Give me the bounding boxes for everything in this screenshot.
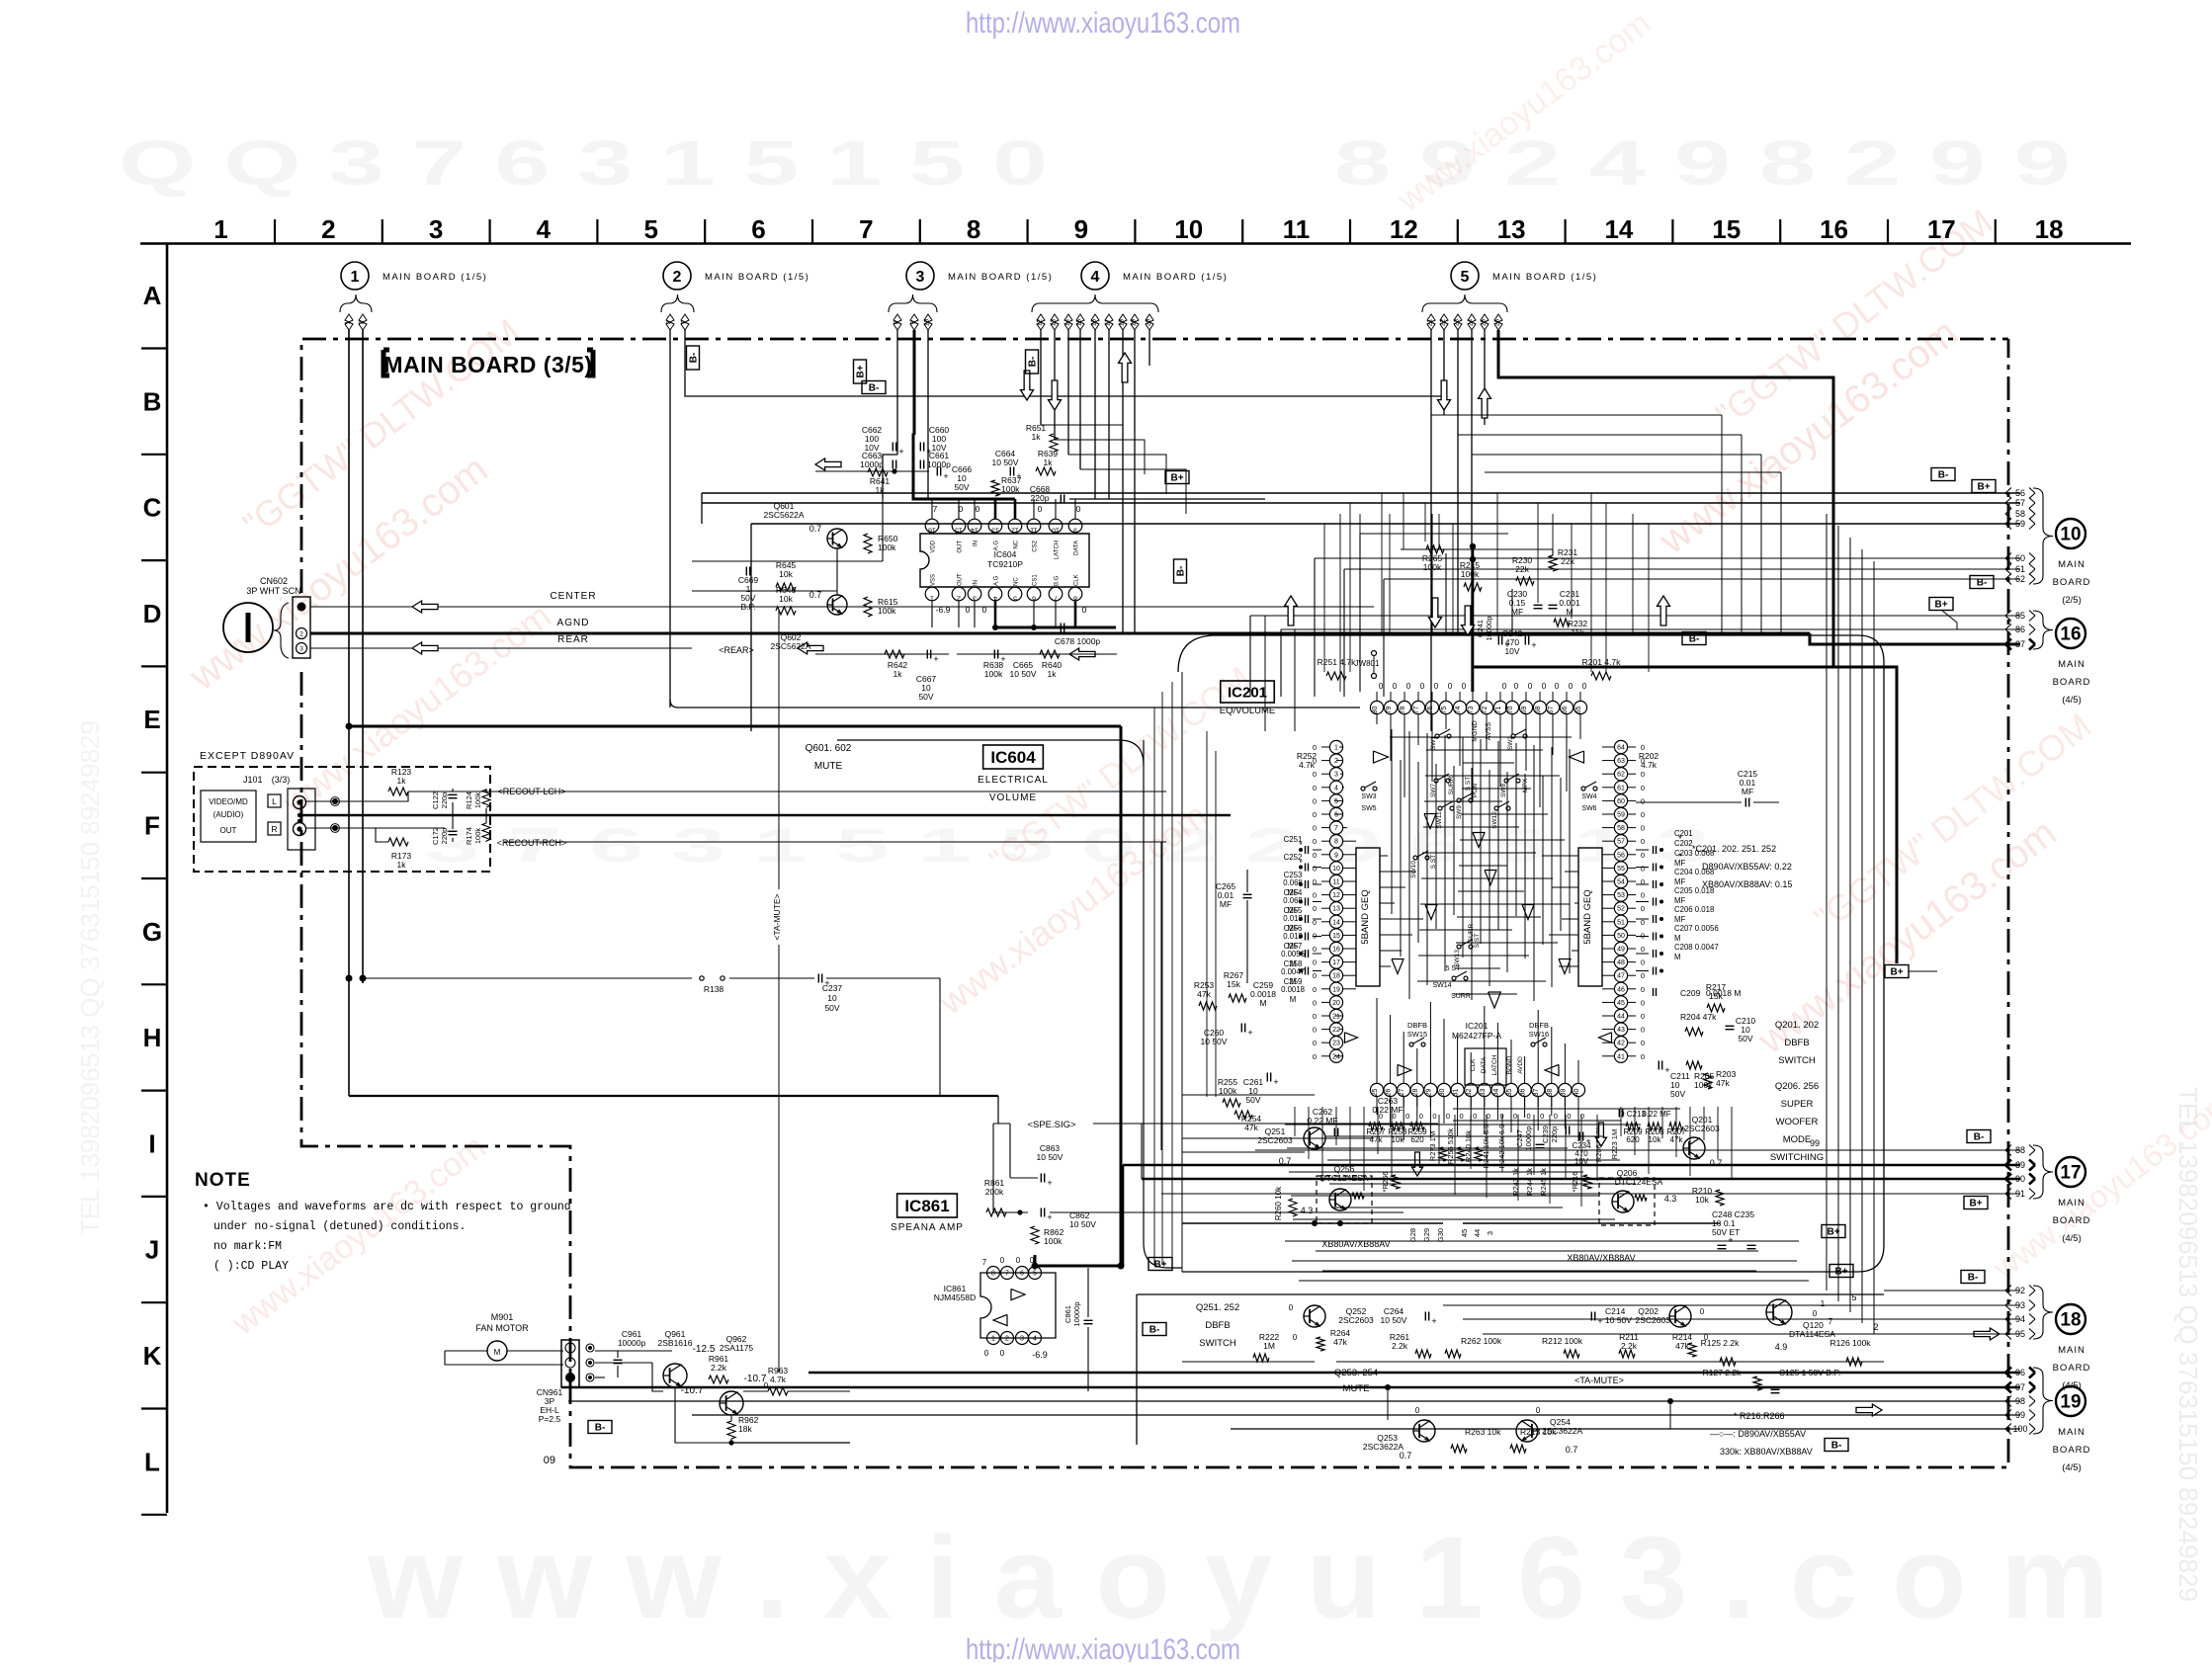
svg-text:B-: B- bbox=[1831, 1441, 1842, 1452]
arrow up right of IC201 bbox=[1658, 596, 1670, 625]
svg-text:16: 16 bbox=[1091, 319, 1098, 327]
capacitor C678 1000p bbox=[1060, 624, 1062, 632]
svg-text:1k: 1k bbox=[1048, 669, 1058, 679]
svg-text:7: 7 bbox=[933, 504, 938, 514]
svg-text:C201: C201 bbox=[1674, 829, 1693, 838]
staircase wires conn5 to right bus bbox=[1431, 414, 1722, 416]
svg-text:220p: 220p bbox=[1550, 1126, 1559, 1143]
svg-text:JW801: JW801 bbox=[1355, 659, 1380, 668]
svg-text:85: 85 bbox=[2015, 611, 2025, 621]
svg-text:0: 0 bbox=[1641, 891, 1645, 900]
svg-text:B+: B+ bbox=[1834, 1267, 1847, 1278]
svg-text:B-: B- bbox=[689, 353, 700, 364]
power label B+ IC861 bbox=[1149, 1258, 1172, 1271]
svg-text:13: 13 bbox=[991, 527, 999, 534]
svg-text:2.2k: 2.2k bbox=[1621, 1341, 1638, 1351]
svg-text:1k: 1k bbox=[397, 860, 407, 870]
power label B- conn17 top bbox=[1967, 1130, 1991, 1143]
svg-text:0: 0 bbox=[1313, 877, 1317, 886]
svg-text:4.7k: 4.7k bbox=[770, 1375, 787, 1384]
svg-text:2: 2 bbox=[299, 630, 303, 637]
wire row H thick to SPE.SIG bbox=[349, 1095, 998, 1097]
svg-text:10: 10 bbox=[1052, 527, 1060, 534]
svg-text:20: 20 bbox=[1332, 1000, 1340, 1007]
svg-text:EQ/VOLUME: EQ/VOLUME bbox=[1220, 706, 1276, 716]
svg-text:0: 0 bbox=[1313, 931, 1317, 940]
svg-text:CENTER: CENTER bbox=[550, 591, 596, 602]
svg-text:2SC3622A: 2SC3622A bbox=[1363, 1442, 1404, 1452]
bus wires rows C to connector 10 bbox=[702, 492, 2020, 494]
NOTE text block bbox=[195, 1170, 571, 1273]
svg-text:+: + bbox=[1728, 1235, 1733, 1245]
svg-text:DBFB: DBFB bbox=[1529, 1021, 1549, 1030]
svg-text:SW1: SW1 bbox=[1430, 736, 1437, 750]
svg-text:0: 0 bbox=[1313, 810, 1317, 819]
svg-text:CS2: CS2 bbox=[1033, 540, 1039, 551]
arrow CENTER bbox=[412, 601, 438, 613]
svg-text:97: 97 bbox=[2015, 1382, 2025, 1392]
svg-text:10: 10 bbox=[827, 993, 837, 1003]
svg-text:6: 6 bbox=[1020, 1271, 1024, 1278]
svg-text:2: 2 bbox=[321, 214, 335, 244]
svg-text:B-: B- bbox=[595, 1423, 606, 1434]
svg-text:+: + bbox=[1047, 1178, 1052, 1188]
svg-text:C122: C122 bbox=[431, 792, 440, 809]
wire row E thick bus bbox=[346, 723, 353, 730]
svg-text:59: 59 bbox=[2015, 519, 2025, 529]
svg-text:47: 47 bbox=[1617, 973, 1625, 980]
opamp triangles row3 bbox=[1392, 959, 1404, 974]
svg-text:IC861: IC861 bbox=[904, 1197, 949, 1215]
svg-text:4: 4 bbox=[537, 214, 552, 244]
svg-text:19: 19 bbox=[1131, 319, 1138, 327]
svg-text:*R266: *R266 bbox=[1381, 1172, 1390, 1193]
svg-text:0: 0 bbox=[1420, 682, 1425, 691]
svg-text:R125 2.2k: R125 2.2k bbox=[1701, 1338, 1740, 1348]
svg-text:0.22 MF: 0.22 MF bbox=[1642, 1110, 1670, 1119]
svg-text:BOARD: BOARD bbox=[2053, 1363, 2091, 1374]
svg-text:TC9210P: TC9210P bbox=[987, 559, 1023, 569]
svg-text:SW9: SW9 bbox=[1456, 805, 1463, 819]
svg-text:0: 0 bbox=[1313, 851, 1317, 860]
svg-text:76: 76 bbox=[1427, 707, 1434, 714]
J101 connector body bbox=[288, 789, 315, 850]
svg-text:B+: B+ bbox=[1977, 482, 1990, 493]
svg-text:16: 16 bbox=[1820, 214, 1848, 244]
svg-text:IN: IN bbox=[974, 580, 979, 586]
svg-text:64: 64 bbox=[1617, 745, 1625, 752]
svg-text:G29: G29 bbox=[1422, 1228, 1431, 1242]
svg-text:C208 0.0047: C208 0.0047 bbox=[1674, 943, 1719, 952]
svg-text:+: + bbox=[1531, 640, 1536, 650]
svg-text:2SC5622A: 2SC5622A bbox=[770, 641, 810, 651]
svg-text:68: 68 bbox=[1535, 707, 1542, 714]
svg-text:IC604: IC604 bbox=[990, 748, 1036, 767]
svg-text:0: 0 bbox=[1076, 504, 1081, 514]
svg-text:10: 10 bbox=[1174, 214, 1203, 244]
wire AGND thick bbox=[310, 632, 1810, 635]
svg-text:R256 510k: R256 510k bbox=[1446, 1128, 1455, 1165]
svg-text:+: + bbox=[1431, 1316, 1436, 1326]
svg-text:22: 22 bbox=[1440, 319, 1447, 327]
thick AGND wire to pin 87 bbox=[1810, 633, 2020, 644]
svg-text:B.P.: B.P. bbox=[741, 602, 756, 612]
svg-text:47k: 47k bbox=[1197, 989, 1211, 999]
svg-text:5: 5 bbox=[1033, 1271, 1037, 1278]
svg-text:56: 56 bbox=[1617, 852, 1625, 859]
svg-text:4.3: 4.3 bbox=[1664, 1194, 1677, 1204]
svg-text:96: 96 bbox=[2015, 1368, 2025, 1377]
svg-text:0: 0 bbox=[1514, 682, 1519, 691]
node I source symbol bbox=[223, 603, 273, 652]
svg-text:46: 46 bbox=[1617, 986, 1625, 993]
svg-text:0: 0 bbox=[1536, 1406, 1541, 1415]
svg-text:0: 0 bbox=[1038, 504, 1043, 514]
wire J101 L out bbox=[306, 800, 395, 802]
svg-text:59: 59 bbox=[1617, 812, 1625, 819]
connector ref 18 to MAIN BOARD 4/5 bbox=[2005, 1286, 2090, 1392]
right caps C201-C209 bbox=[1636, 829, 1719, 975]
svg-text:29: 29 bbox=[1425, 1089, 1432, 1097]
svg-text:12: 12 bbox=[1037, 319, 1044, 327]
svg-text:13: 13 bbox=[1051, 319, 1058, 327]
staircase wires conn4 to IC604 big rect bbox=[1041, 425, 1123, 464]
svg-text:2SC5622A: 2SC5622A bbox=[763, 510, 804, 520]
svg-text:10000p: 10000p bbox=[618, 1338, 646, 1348]
transistor Q120 DTA114ESA bbox=[1766, 1299, 1792, 1325]
wire conn3 pin8 down bbox=[896, 330, 898, 455]
svg-text:0: 0 bbox=[1313, 1052, 1317, 1061]
pin R box bbox=[268, 822, 281, 835]
arrow down conn4-a bbox=[1021, 371, 1034, 400]
capacitor C237 10 50V bbox=[817, 974, 819, 983]
svg-text:49: 49 bbox=[1617, 947, 1625, 954]
svg-text:7: 7 bbox=[1334, 825, 1338, 832]
svg-text:0: 0 bbox=[1567, 1112, 1571, 1121]
svg-text:23: 23 bbox=[1454, 319, 1461, 327]
svg-text:2.2k: 2.2k bbox=[1392, 1341, 1408, 1351]
svg-text:100k: 100k bbox=[473, 828, 482, 845]
svg-text:R262 100k: R262 100k bbox=[1461, 1336, 1502, 1346]
svg-text:1k: 1k bbox=[397, 776, 407, 786]
svg-text:1k: 1k bbox=[1044, 458, 1054, 467]
svg-text:19: 19 bbox=[1332, 986, 1340, 993]
svg-text:AGND: AGND bbox=[557, 618, 590, 628]
svg-text:R240 10k: R240 10k bbox=[1464, 1130, 1473, 1162]
svg-text:14: 14 bbox=[1064, 319, 1071, 327]
svg-text:61: 61 bbox=[2015, 564, 2025, 574]
svg-text:99: 99 bbox=[2015, 1410, 2025, 1420]
svg-text:60: 60 bbox=[1617, 798, 1625, 805]
svg-text:67: 67 bbox=[1548, 707, 1555, 714]
svg-text:w w w . x i a o y u 1 6 3 . c: w w w . x i a o y u 1 6 3 . c o m bbox=[367, 1513, 2109, 1643]
svg-text:R124: R124 bbox=[465, 792, 473, 809]
svg-text:40: 40 bbox=[1574, 1089, 1580, 1097]
svg-text:8: 8 bbox=[1073, 595, 1077, 602]
svg-text:M: M bbox=[1674, 934, 1681, 943]
pin L box bbox=[268, 794, 281, 807]
connector ref 2 to MAIN BOARD (1/5) bbox=[661, 262, 809, 330]
power label B+ right mid bbox=[1885, 965, 1909, 978]
svg-text:D: D bbox=[143, 599, 162, 628]
svg-text:R201 4.7k: R201 4.7k bbox=[1582, 657, 1621, 667]
svg-text:*: * bbox=[1678, 852, 1682, 863]
svg-text:B+: B+ bbox=[1153, 1260, 1166, 1271]
svg-text:MAIN: MAIN bbox=[2058, 1345, 2085, 1356]
connector ref 5 to MAIN BOARD (1/5) bbox=[1422, 262, 1597, 330]
svg-text:*R216: *R216 bbox=[1571, 1172, 1579, 1193]
svg-text:0.7: 0.7 bbox=[1400, 1451, 1412, 1460]
svg-text:SW16: SW16 bbox=[1529, 1030, 1549, 1039]
svg-text:no mark:FM: no mark:FM bbox=[213, 1240, 282, 1253]
opamp triangles row1 bbox=[1374, 751, 1389, 763]
power label B+ c248 bbox=[1822, 1225, 1845, 1238]
svg-text:0: 0 bbox=[1448, 682, 1453, 691]
IC604 bottom thick bus bbox=[993, 626, 1116, 629]
svg-text:R223 1M: R223 1M bbox=[1610, 1129, 1619, 1159]
svg-text:10 50V: 10 50V bbox=[1037, 1152, 1063, 1162]
svg-text:3: 3 bbox=[429, 214, 443, 244]
svg-text:IN: IN bbox=[974, 541, 979, 546]
svg-text:0: 0 bbox=[1513, 1112, 1517, 1121]
svg-text:MAIN: MAIN bbox=[2058, 659, 2085, 670]
arrow up left of IC201 bbox=[1285, 596, 1298, 625]
left edge feeder wires ic201 bbox=[1153, 708, 1155, 1265]
svg-text:0: 0 bbox=[1405, 1112, 1409, 1121]
svg-text:<TA-MUTE>: <TA-MUTE> bbox=[772, 893, 782, 940]
svg-text:100k: 100k bbox=[878, 606, 896, 616]
svg-text:BGND: BGND bbox=[1506, 1055, 1513, 1074]
border frame ruler bbox=[140, 214, 2131, 1515]
svg-text:22k: 22k bbox=[1515, 564, 1529, 574]
svg-text:0: 0 bbox=[1313, 784, 1317, 792]
svg-text:10k: 10k bbox=[1649, 1135, 1662, 1144]
5BAND GEQ block left bbox=[1356, 848, 1380, 986]
power label B- bottom right bbox=[1825, 1439, 1848, 1452]
svg-text:MF: MF bbox=[1220, 899, 1232, 909]
block Q251 252 DBFB SWITCH box bbox=[1137, 1293, 1884, 1295]
power label B+ conn17 bottom bbox=[1964, 1197, 1988, 1209]
svg-text:0.7: 0.7 bbox=[1710, 1158, 1723, 1168]
svg-text:0: 0 bbox=[1813, 1309, 1818, 1318]
svg-text:1: 1 bbox=[213, 214, 227, 244]
svg-text:37: 37 bbox=[1533, 1089, 1540, 1097]
IC201 left pin col 1..24 bbox=[1321, 740, 1343, 1062]
wire AGND J101 thick bbox=[302, 814, 1231, 817]
wires dbfb box bbox=[1182, 1361, 1315, 1363]
svg-text:(4/5): (4/5) bbox=[2062, 695, 2082, 706]
svg-text:EXCEPT D890AV: EXCEPT D890AV bbox=[200, 750, 295, 762]
svg-text:100k: 100k bbox=[473, 792, 482, 809]
arrow up conn4 bbox=[1119, 353, 1132, 382]
svg-text:R212 100k: R212 100k bbox=[1542, 1336, 1583, 1346]
svg-text:3: 3 bbox=[1486, 1231, 1494, 1235]
svg-text:0: 0 bbox=[1641, 877, 1645, 886]
svg-text:VIDEO/MD: VIDEO/MD bbox=[209, 797, 248, 806]
svg-text:OUT: OUT bbox=[220, 826, 237, 835]
svg-text:LATCH: LATCH bbox=[1055, 541, 1061, 559]
svg-text:VDD: VDD bbox=[931, 540, 937, 552]
svg-text:SW11: SW11 bbox=[1436, 811, 1443, 829]
wires bottom mid cluster bbox=[1182, 1222, 1443, 1224]
svg-text:B-: B- bbox=[869, 383, 880, 394]
svg-text:5BAND GEQ: 5BAND GEQ bbox=[1582, 889, 1593, 944]
wires group 18 left bbox=[1884, 1290, 2020, 1292]
wire conn1 pin2 down bbox=[362, 330, 364, 983]
power label B- fan bbox=[588, 1421, 612, 1434]
svg-text:0.22 MF: 0.22 MF bbox=[1372, 1105, 1403, 1115]
svg-text:0: 0 bbox=[1641, 851, 1645, 860]
svg-text:0: 0 bbox=[1313, 864, 1317, 873]
vertical feeders 17/18 bbox=[1122, 1165, 1125, 1266]
wires conn5 pins down bbox=[1430, 330, 1432, 731]
svg-text:10 50V: 10 50V bbox=[1010, 669, 1037, 679]
svg-text:SW5: SW5 bbox=[1361, 805, 1376, 812]
svg-text:0: 0 bbox=[1499, 1112, 1503, 1121]
svg-text:51: 51 bbox=[1617, 919, 1625, 926]
svg-text:50V: 50V bbox=[824, 1003, 839, 1013]
svg-text:CS1: CS1 bbox=[1033, 574, 1039, 586]
svg-text:4.3: 4.3 bbox=[1301, 1206, 1314, 1215]
svg-text:I: I bbox=[148, 1128, 155, 1158]
5BAND GEQ block right bbox=[1578, 848, 1602, 986]
svg-text:15: 15 bbox=[1332, 933, 1340, 940]
svg-text:XB80AV/XB88AV: XB80AV/XB88AV bbox=[1321, 1239, 1390, 1249]
svg-text:39: 39 bbox=[1560, 1089, 1567, 1097]
serial box CLK DATA LATCH bbox=[1465, 1048, 1506, 1085]
svg-text:MAIN BOARD (3/5): MAIN BOARD (3/5) bbox=[383, 352, 592, 377]
svg-text:0: 0 bbox=[1016, 1256, 1021, 1265]
svg-text:2SC2603: 2SC2603 bbox=[1338, 1315, 1374, 1325]
wire row F-G long bbox=[346, 975, 353, 982]
svg-text:31: 31 bbox=[1453, 1089, 1460, 1097]
svg-text:M901: M901 bbox=[491, 1312, 514, 1322]
svg-text:4: 4 bbox=[1091, 269, 1100, 286]
svg-text:0: 0 bbox=[976, 504, 980, 514]
svg-text:3: 3 bbox=[973, 595, 977, 602]
svg-text:50V: 50V bbox=[954, 482, 969, 492]
svg-text:http://www.xiaoyu163.com: http://www.xiaoyu163.com bbox=[966, 7, 1240, 40]
svg-text:0: 0 bbox=[1540, 1112, 1544, 1121]
svg-text:TEL 13982096513 QQ 376315150 8: TEL 13982096513 QQ 376315150 89249829 bbox=[2173, 1087, 2203, 1602]
svg-text:65: 65 bbox=[1575, 707, 1582, 714]
svg-text:62: 62 bbox=[1617, 772, 1625, 779]
svg-text:+: + bbox=[943, 471, 948, 481]
svg-text:16: 16 bbox=[2060, 625, 2081, 645]
svg-text:50: 50 bbox=[1617, 933, 1625, 940]
svg-text:0: 0 bbox=[1527, 1112, 1531, 1121]
svg-text:+: + bbox=[1597, 1316, 1602, 1326]
left caps C251-C259 bbox=[1281, 835, 1321, 1004]
svg-text:M: M bbox=[1259, 998, 1266, 1008]
svg-text:0: 0 bbox=[1641, 1039, 1645, 1047]
junction dots bottom bus bbox=[1385, 1384, 1391, 1390]
svg-text:77: 77 bbox=[1413, 707, 1420, 714]
svg-text:6: 6 bbox=[1334, 812, 1338, 819]
svg-text:MUTE: MUTE bbox=[1343, 1383, 1370, 1394]
svg-text:12: 12 bbox=[1332, 892, 1340, 899]
svg-text:0.7: 0.7 bbox=[1566, 1445, 1578, 1455]
power label B- ic201 top right bbox=[1682, 632, 1706, 645]
svg-text:XB80AV/XB88AV: XB80AV/XB88AV bbox=[1567, 1253, 1635, 1263]
svg-text:J101: J101 bbox=[243, 775, 263, 785]
svg-text:80: 80 bbox=[1372, 707, 1379, 714]
svg-text:71: 71 bbox=[1495, 707, 1502, 714]
svg-text:1M: 1M bbox=[1263, 1341, 1275, 1351]
svg-text:0: 0 bbox=[1528, 682, 1533, 691]
svg-text:0: 0 bbox=[1641, 784, 1645, 792]
power label B- dbfb bbox=[1143, 1323, 1166, 1336]
svg-text:P=2.5: P=2.5 bbox=[539, 1414, 561, 1424]
svg-text:REAR: REAR bbox=[557, 634, 589, 645]
svg-text:09: 09 bbox=[544, 1455, 555, 1466]
svg-text:0: 0 bbox=[1432, 1112, 1436, 1121]
svg-text:0: 0 bbox=[982, 605, 987, 615]
wire conn5 pin26 thick bus bbox=[1498, 330, 1833, 667]
wire CENTER bbox=[310, 606, 1374, 608]
svg-text:B-: B- bbox=[1149, 1325, 1160, 1336]
svg-text:2: 2 bbox=[957, 595, 961, 602]
svg-text:57: 57 bbox=[2015, 498, 2025, 508]
svg-text:45: 45 bbox=[1617, 1000, 1625, 1007]
right side long verticals to lower connectors bbox=[1722, 415, 2020, 1334]
svg-text:B+: B+ bbox=[1934, 600, 1947, 611]
svg-text:XB80AV/XB88AV: 0.15: XB80AV/XB88AV: 0.15 bbox=[1702, 879, 1792, 889]
svg-text:3P WHT SCN: 3P WHT SCN bbox=[246, 586, 300, 596]
svg-text:10: 10 bbox=[2060, 525, 2081, 545]
svg-text:Q Q 3 7 6 3 1 5 1 5 0: Q Q 3 7 6 3 1 5 1 5 0 bbox=[119, 127, 1048, 199]
svg-text:R263 10k: R263 10k bbox=[1465, 1427, 1501, 1437]
svg-text:+: + bbox=[898, 447, 903, 457]
svg-text:C241: C241 bbox=[1476, 620, 1485, 637]
svg-text:2: 2 bbox=[1005, 1336, 1009, 1343]
svg-text:0: 0 bbox=[1473, 1112, 1477, 1121]
svg-text:44: 44 bbox=[1473, 1229, 1482, 1237]
fan driver wires bbox=[652, 1363, 663, 1391]
IC201 right pin col 64..41 bbox=[1614, 740, 1636, 1062]
svg-text:0: 0 bbox=[1542, 682, 1547, 691]
svg-text:41: 41 bbox=[1617, 1053, 1625, 1060]
svg-text:50V ET: 50V ET bbox=[1712, 1227, 1740, 1237]
svg-text:0: 0 bbox=[1460, 1112, 1464, 1121]
svg-text:0: 0 bbox=[1313, 959, 1317, 967]
svg-text:2: 2 bbox=[1334, 758, 1338, 765]
svg-text:1: 1 bbox=[1334, 745, 1338, 752]
svg-text:+: + bbox=[1047, 1212, 1052, 1222]
svg-text:BOARD: BOARD bbox=[2053, 577, 2091, 588]
svg-text:B-: B- bbox=[1977, 578, 1988, 589]
svg-text:(2/5): (2/5) bbox=[2062, 595, 2082, 606]
svg-text:0: 0 bbox=[1641, 837, 1645, 846]
svg-text:2SC2603: 2SC2603 bbox=[1257, 1135, 1293, 1145]
svg-text:17: 17 bbox=[2060, 1163, 2081, 1184]
svg-text:1: 1 bbox=[1821, 1299, 1826, 1308]
svg-text:1k: 1k bbox=[893, 669, 903, 679]
thick bus to B+ right mid bbox=[1473, 667, 1897, 963]
svg-text:R260 10k: R260 10k bbox=[1274, 1186, 1283, 1220]
svg-text:35: 35 bbox=[1506, 1089, 1513, 1097]
svg-text:70: 70 bbox=[1507, 707, 1514, 714]
svg-text:0: 0 bbox=[1313, 824, 1317, 833]
svg-text:0: 0 bbox=[1000, 1349, 1005, 1358]
arrow right bottom bbox=[1856, 1404, 1882, 1416]
svg-text:BOARD: BOARD bbox=[2053, 677, 2091, 688]
svg-text:-6.9: -6.9 bbox=[1032, 1350, 1048, 1360]
svg-text:AVDD: AVDD bbox=[1517, 1056, 1524, 1074]
svg-text:L: L bbox=[272, 796, 277, 806]
svg-text:4: 4 bbox=[1334, 785, 1338, 792]
svg-text:30: 30 bbox=[1439, 1089, 1446, 1097]
